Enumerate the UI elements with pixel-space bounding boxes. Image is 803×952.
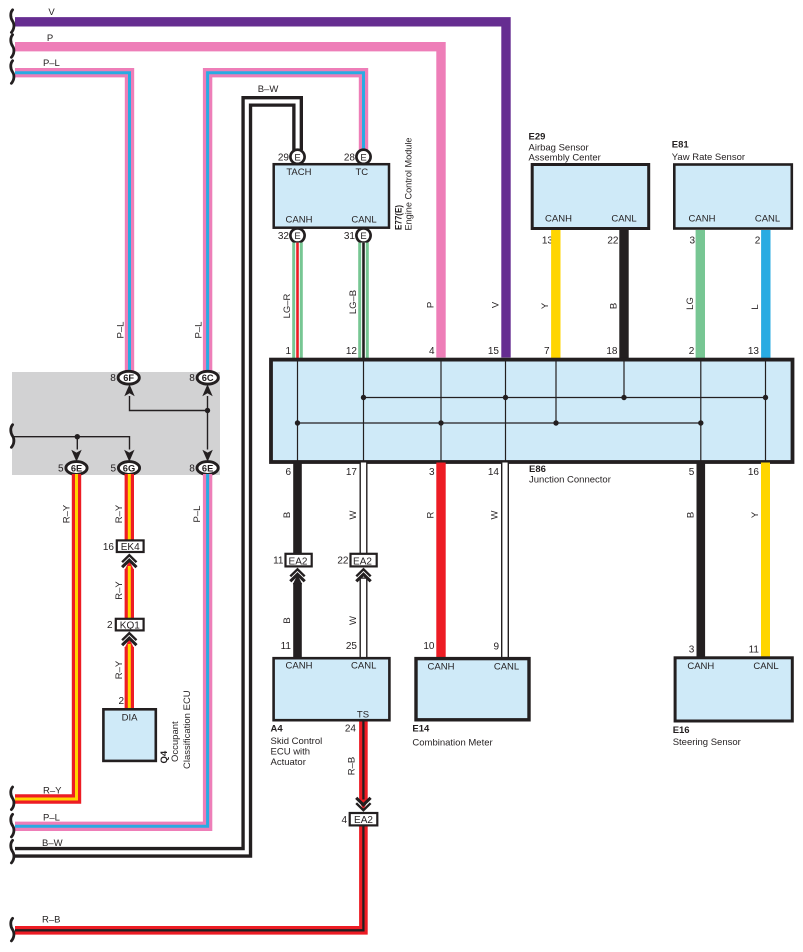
svg-text:V: V xyxy=(48,7,55,18)
svg-text:Y: Y xyxy=(540,302,551,309)
wire LG (E81 CANH to junction pin 2) xyxy=(696,230,705,358)
CANH bus bar xyxy=(298,422,701,424)
connector 6F xyxy=(118,371,139,384)
junction dot (gray box) xyxy=(75,434,80,439)
CANL bus dot 15 xyxy=(503,395,508,400)
wire W (junction pin 14 to E14 pin 9) xyxy=(501,463,509,658)
svg-text:P–L: P–L xyxy=(43,812,60,823)
svg-text:CANH: CANH xyxy=(428,662,455,673)
wire B (junction pin 6 to A4 pin 11) xyxy=(293,463,302,555)
svg-text:LG: LG xyxy=(685,297,696,310)
wire LG-B (E77 pin 31 to junction pin 12) xyxy=(358,243,369,358)
svg-text:2: 2 xyxy=(118,696,124,707)
junction column line 2 xyxy=(700,361,702,462)
svg-text:CANL: CANL xyxy=(494,662,519,673)
brace (P-L lead) xyxy=(11,61,14,84)
svg-text:L: L xyxy=(750,304,761,309)
svg-text:5: 5 xyxy=(110,463,116,474)
wire (dot to 6E) xyxy=(76,437,78,450)
svg-text:24: 24 xyxy=(345,724,357,735)
CANL bus dot 12 xyxy=(361,395,366,400)
yaw rate sensor E81 box xyxy=(674,165,792,229)
svg-text:LG–B: LG–B xyxy=(348,290,359,314)
svg-text:V: V xyxy=(491,301,502,308)
chevron (below EK4) xyxy=(122,555,136,562)
down arrow into 6E (right) xyxy=(202,450,212,462)
svg-text:Assembly Center: Assembly Center xyxy=(529,152,601,163)
svg-text:2: 2 xyxy=(107,620,113,631)
wire P-L (6E right to bottom lead) xyxy=(15,474,208,826)
wire P-L (left branch to 6F) xyxy=(15,73,130,372)
svg-text:E: E xyxy=(294,231,300,242)
svg-text:11: 11 xyxy=(749,644,760,655)
svg-text:CANL: CANL xyxy=(755,213,780,224)
svg-text:5: 5 xyxy=(689,467,695,478)
junction column line 1 xyxy=(297,361,299,462)
svg-text:Q4: Q4 xyxy=(159,750,170,763)
brace (P-L bottom lead) xyxy=(11,814,14,837)
svg-text:R–Y: R–Y xyxy=(114,660,125,679)
up arrow into 6F xyxy=(124,384,134,396)
wire B (junction pin 5 to E16 pin 3) xyxy=(696,463,705,658)
svg-text:4: 4 xyxy=(341,815,347,826)
svg-text:CANH: CANH xyxy=(689,213,716,224)
connector EA2 (22) xyxy=(351,554,377,568)
svg-text:E86: E86 xyxy=(529,464,546,475)
CANH bus dot 3 xyxy=(438,420,443,425)
svg-text:Combination Meter: Combination Meter xyxy=(412,738,492,749)
wire V xyxy=(15,22,506,358)
svg-text:CANL: CANL xyxy=(351,661,376,672)
svg-text:10: 10 xyxy=(423,641,435,652)
chevron (below EA2 22) xyxy=(356,569,370,576)
wire R (junction pin 3 to E14 pin 10) xyxy=(436,463,445,658)
svg-text:E: E xyxy=(360,152,366,163)
wire (gray box feed to 6E/6G) xyxy=(14,437,130,450)
steering sensor E16 box xyxy=(675,658,792,721)
junction column line 4 xyxy=(440,361,442,462)
wire W (junction pin 17 to A4 pin 25) xyxy=(360,463,368,658)
skid control ECU A4 box xyxy=(274,658,390,720)
svg-text:B–W: B–W xyxy=(258,84,279,95)
svg-text:Steering Sensor: Steering Sensor xyxy=(673,737,741,748)
svg-text:Classification ECU: Classification ECU xyxy=(182,690,193,769)
svg-text:P–L: P–L xyxy=(192,506,203,523)
svg-text:EA2: EA2 xyxy=(289,556,308,567)
svg-text:6G: 6G xyxy=(123,463,135,473)
svg-text:8: 8 xyxy=(189,373,195,384)
svg-text:E14: E14 xyxy=(412,724,430,735)
CANH bus dot 2 xyxy=(698,420,703,425)
wire (6C to 6E right) xyxy=(207,396,209,450)
svg-text:25: 25 xyxy=(346,641,358,652)
brace (P lead) xyxy=(11,35,14,58)
svg-text:B–W: B–W xyxy=(42,838,63,849)
ground pin E (28) xyxy=(356,150,370,164)
ground pin E (31) xyxy=(356,228,370,242)
svg-text:EK4: EK4 xyxy=(121,542,140,553)
svg-text:CANL: CANL xyxy=(351,214,376,225)
brace (V lead) xyxy=(11,10,14,33)
svg-text:R–B: R–B xyxy=(347,757,358,775)
svg-text:2: 2 xyxy=(755,235,761,246)
svg-text:P: P xyxy=(47,33,53,44)
junction connector E86 box xyxy=(271,360,793,462)
svg-text:EA2: EA2 xyxy=(353,556,372,567)
chevron (below EA2 11) xyxy=(290,569,304,576)
svg-text:CANH: CANH xyxy=(545,213,572,224)
svg-text:6C: 6C xyxy=(202,373,214,383)
svg-text:TC: TC xyxy=(355,167,368,178)
svg-text:A4: A4 xyxy=(271,724,284,735)
brace (gray box lead) xyxy=(11,425,14,448)
wire (6F to link) xyxy=(130,396,208,411)
up arrow into 6C xyxy=(202,384,212,396)
svg-text:P–L: P–L xyxy=(194,322,205,339)
svg-text:6E: 6E xyxy=(71,463,82,473)
svg-text:B: B xyxy=(609,303,620,309)
svg-text:3: 3 xyxy=(689,235,695,246)
ground pin E (29) xyxy=(290,150,304,164)
ECU DIA box xyxy=(103,709,155,761)
svg-text:R–B: R–B xyxy=(42,914,60,925)
wire R-Y (6E to bottom lead) xyxy=(15,474,77,799)
svg-text:W: W xyxy=(490,510,501,519)
svg-text:Occupant: Occupant xyxy=(170,721,181,762)
svg-text:Yaw Rate Sensor: Yaw Rate Sensor xyxy=(672,152,745,163)
svg-text:B: B xyxy=(685,512,696,518)
svg-text:31: 31 xyxy=(344,231,356,242)
junction column line 18 xyxy=(623,361,625,398)
svg-text:2: 2 xyxy=(689,346,695,357)
airbag sensor E29 box xyxy=(532,165,649,229)
svg-text:28: 28 xyxy=(344,152,356,163)
junction column line 13 xyxy=(765,361,767,462)
svg-text:14: 14 xyxy=(488,467,500,478)
connector 6E (right) xyxy=(197,462,218,475)
wire R-B (A4 TS to bottom lead) xyxy=(15,722,368,931)
CANH bus dot 1 xyxy=(295,420,300,425)
svg-text:KQ1: KQ1 xyxy=(120,620,140,631)
svg-text:DIA: DIA xyxy=(122,712,139,723)
CANL bus dot 18 xyxy=(621,395,626,400)
svg-text:17: 17 xyxy=(346,467,358,478)
svg-text:E81: E81 xyxy=(672,140,690,151)
svg-text:P: P xyxy=(426,302,437,308)
connector 6C xyxy=(197,371,218,384)
svg-text:E16: E16 xyxy=(673,725,690,736)
svg-text:29: 29 xyxy=(278,152,290,163)
svg-text:6: 6 xyxy=(285,467,291,478)
wire L (E81 CANL to junction pin 13) xyxy=(761,230,770,358)
junction column line 15 xyxy=(505,361,507,462)
svg-text:Actuator: Actuator xyxy=(271,757,306,768)
chevron (below KQ1) xyxy=(122,633,136,640)
connector EA2 (4) xyxy=(350,813,378,826)
connector EK4 xyxy=(117,540,144,553)
svg-text:Junction Connector: Junction Connector xyxy=(529,474,611,485)
svg-text:18: 18 xyxy=(606,346,618,357)
wire P-L (6C to ECM pin 28) xyxy=(208,73,364,372)
svg-text:Engine Control Module: Engine Control Module xyxy=(404,138,415,231)
CANL bus bar xyxy=(364,397,766,399)
svg-text:P–L: P–L xyxy=(43,58,60,69)
junction column line 7 xyxy=(555,361,557,424)
svg-text:5: 5 xyxy=(58,463,64,474)
svg-text:TS: TS xyxy=(357,710,369,721)
svg-text:R–Y: R–Y xyxy=(114,581,125,600)
svg-text:16: 16 xyxy=(103,542,115,553)
CANL bus dot 13 xyxy=(763,395,768,400)
down arrow into 6G xyxy=(124,450,134,462)
svg-text:32: 32 xyxy=(278,231,290,242)
svg-text:CANH: CANH xyxy=(286,661,313,672)
ground pin E (32) xyxy=(290,228,304,242)
wire B-W xyxy=(15,101,298,852)
svg-text:3: 3 xyxy=(689,644,695,655)
svg-text:Y: Y xyxy=(750,511,761,518)
wire Y (junction pin 16 to E16 pin 11) xyxy=(761,463,770,658)
brace (R-Y lead) xyxy=(11,787,14,810)
combination meter E14 box xyxy=(416,659,529,720)
svg-text:7: 7 xyxy=(544,346,550,357)
svg-text:13: 13 xyxy=(748,346,760,357)
junction dot (6C drop) xyxy=(205,408,210,413)
connector 6E (left) xyxy=(66,462,87,475)
svg-text:R: R xyxy=(426,511,437,518)
svg-text:6E: 6E xyxy=(202,463,213,473)
junction column line 12 xyxy=(363,361,365,462)
svg-text:12: 12 xyxy=(346,346,358,357)
svg-text:P–L: P–L xyxy=(116,322,127,339)
svg-text:CANL: CANL xyxy=(753,661,778,672)
svg-text:8: 8 xyxy=(189,463,195,474)
svg-text:1: 1 xyxy=(285,346,291,357)
svg-text:EA2: EA2 xyxy=(354,815,373,826)
ECM E77(E) box xyxy=(274,164,389,228)
down arrow into 6E (left) xyxy=(71,450,81,462)
svg-text:TACH: TACH xyxy=(286,167,311,178)
brace (B-W lead) xyxy=(11,840,14,863)
svg-text:8: 8 xyxy=(110,373,116,384)
CANH bus dot 7 xyxy=(553,420,558,425)
svg-text:CANH: CANH xyxy=(286,214,313,225)
svg-text:R–Y: R–Y xyxy=(62,504,73,523)
svg-text:ECU with: ECU with xyxy=(271,747,311,758)
svg-text:22: 22 xyxy=(607,235,619,246)
svg-text:LG–R: LG–R xyxy=(282,293,293,318)
svg-text:CANH: CANH xyxy=(687,661,714,672)
svg-text:W: W xyxy=(348,510,359,519)
connector EA2 (11) xyxy=(286,554,312,568)
svg-text:15: 15 xyxy=(488,346,500,357)
svg-text:3: 3 xyxy=(429,467,435,478)
svg-text:6F: 6F xyxy=(123,373,134,383)
wire B (E29 CANL to junction pin 18) xyxy=(619,230,628,358)
svg-text:B: B xyxy=(282,617,293,623)
brace (R-B lead) xyxy=(11,918,14,941)
wire P xyxy=(15,47,441,358)
svg-text:B: B xyxy=(282,512,293,518)
svg-text:11: 11 xyxy=(273,556,284,567)
wire R-Y (6G to DIA) xyxy=(125,474,134,709)
svg-text:CANL: CANL xyxy=(611,213,636,224)
wire LG-R (E77 pin 32 to junction pin 1) xyxy=(292,243,303,358)
svg-text:R–Y: R–Y xyxy=(114,504,125,523)
svg-text:22: 22 xyxy=(337,556,349,567)
occupant classification ECU shield block (gray) xyxy=(12,372,220,475)
wire Y (E29 CANH to junction pin 7) xyxy=(551,230,560,358)
svg-text:E: E xyxy=(294,152,300,163)
svg-text:4: 4 xyxy=(429,346,435,357)
connector KQ1 xyxy=(116,619,144,632)
svg-text:W: W xyxy=(348,616,359,625)
svg-text:11: 11 xyxy=(281,641,292,652)
chevron (above EA2 4, down) xyxy=(356,798,370,805)
svg-text:E29: E29 xyxy=(529,132,546,143)
svg-text:R–Y: R–Y xyxy=(43,785,62,796)
svg-text:E: E xyxy=(360,231,366,242)
svg-text:9: 9 xyxy=(493,642,499,653)
svg-text:Skid Control: Skid Control xyxy=(271,736,323,747)
connector 6G xyxy=(118,462,139,475)
svg-text:16: 16 xyxy=(748,467,760,478)
